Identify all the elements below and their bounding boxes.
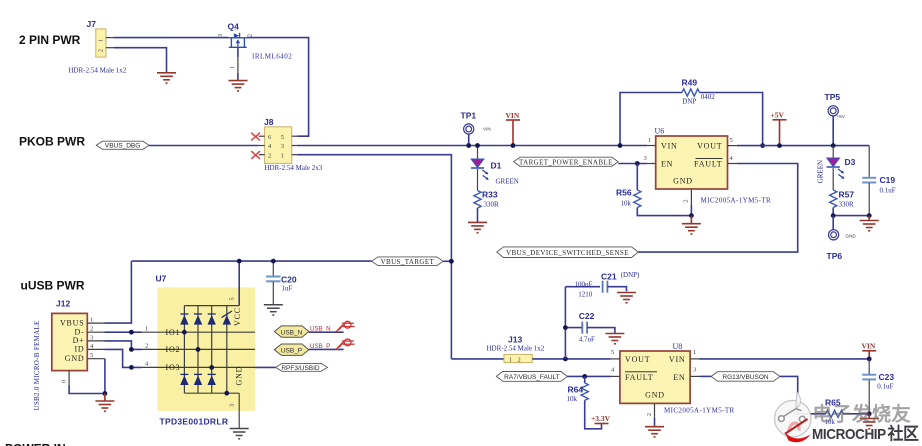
wire Q4 drain to J8 pin5 bbox=[247, 38, 309, 137]
wire U6 FAULT to sense label bbox=[638, 164, 798, 253]
svg-text:330R: 330R bbox=[484, 200, 500, 208]
IC U6 MIC2005A-1YM5-TR bbox=[644, 126, 772, 215]
svg-text:2: 2 bbox=[646, 413, 653, 416]
svg-text:GND: GND bbox=[673, 177, 693, 186]
svg-text:ID: ID bbox=[74, 345, 84, 354]
junction D1/VIN rail bbox=[475, 143, 480, 148]
wire EN label to U8 pin3 bbox=[700, 375, 712, 377]
svg-text:2: 2 bbox=[518, 356, 521, 363]
wire C21/C22 column bbox=[564, 287, 566, 359]
resistor R56 10k bbox=[616, 164, 691, 216]
power symbol VIN (left) bbox=[506, 111, 521, 146]
svg-text:10k: 10k bbox=[621, 200, 632, 208]
svg-text:GREEN: GREEN bbox=[496, 178, 519, 186]
svg-text:VIN: VIN bbox=[483, 127, 491, 132]
IC U8 MIC2005A-1YM5-TR bbox=[611, 342, 735, 427]
wire J13 to U8 VOUT bbox=[532, 358, 610, 360]
watermark logo circle bbox=[775, 392, 811, 442]
svg-text:3: 3 bbox=[229, 404, 236, 407]
svg-text:D1: D1 bbox=[491, 160, 502, 170]
resistor R65 10k bbox=[825, 397, 870, 425]
svg-text:2: 2 bbox=[90, 326, 93, 333]
junction C19 bottom bbox=[867, 213, 872, 218]
no-connect X on J8 pin6 bbox=[251, 133, 260, 141]
svg-text:GND: GND bbox=[846, 234, 857, 239]
top ESD diode column3 bbox=[208, 314, 216, 325]
wire U6 VOUT rail bbox=[737, 145, 869, 147]
svg-text:100uF: 100uF bbox=[575, 280, 593, 288]
test point TP1 bbox=[461, 111, 491, 146]
ground at U7 bbox=[230, 429, 249, 439]
svg-text:EN: EN bbox=[661, 160, 673, 169]
IC U7 TPD3E001DRLR bbox=[142, 274, 256, 427]
junction R49 left/VIN rail bbox=[618, 143, 623, 148]
connector J8 bbox=[259, 117, 323, 172]
svg-text:1: 1 bbox=[145, 325, 148, 332]
wire enable label to U6 pin3 bbox=[618, 163, 647, 165]
capacitor C21 100uF 1210 (DNP) bbox=[565, 271, 640, 299]
svg-text:J8: J8 bbox=[264, 117, 274, 127]
wire VBUS rail to VBUS_TARGET bbox=[131, 260, 371, 262]
svg-text:4.7uF: 4.7uF bbox=[579, 336, 595, 344]
capacitor C23 0.1uF bbox=[862, 359, 894, 414]
svg-text:VIN: VIN bbox=[506, 111, 520, 120]
wire main VIN rail J8 pin3 to U6 pin1 bbox=[298, 145, 648, 147]
connector J13 bbox=[487, 335, 545, 364]
svg-text:U7: U7 bbox=[156, 274, 167, 284]
svg-text:IO3: IO3 bbox=[166, 363, 181, 372]
svg-text:0.1uF: 0.1uF bbox=[877, 382, 893, 390]
svg-text:3: 3 bbox=[217, 34, 224, 37]
svg-text:3: 3 bbox=[281, 143, 284, 150]
power symbol +3.3V bbox=[591, 414, 611, 424]
wire J12 ID to IO3 bbox=[105, 349, 142, 367]
test point TP6 bbox=[827, 216, 857, 261]
junction VIN/U8 rail bbox=[867, 357, 872, 362]
wire J12 shield to ground bbox=[69, 385, 105, 394]
svg-text:0: 0 bbox=[61, 380, 68, 383]
svg-text:R49: R49 bbox=[682, 77, 698, 87]
svg-text:IRLML6402: IRLML6402 bbox=[252, 52, 292, 60]
capacitor C20 1uF bbox=[266, 261, 297, 304]
port label USB_N bbox=[274, 321, 354, 337]
svg-text:3: 3 bbox=[644, 155, 647, 162]
svg-text:J7: J7 bbox=[87, 19, 97, 29]
svg-text:VOUT: VOUT bbox=[625, 355, 650, 364]
svg-text:1: 1 bbox=[229, 66, 236, 69]
wire J7 pin2 to ground bbox=[114, 48, 167, 73]
junction C23 bottom/R65 bbox=[867, 411, 872, 416]
svg-text:电子发烧友: 电子发烧友 bbox=[813, 403, 912, 426]
bottom ESD diode column1 bbox=[180, 374, 188, 385]
svg-text:D3: D3 bbox=[845, 157, 856, 167]
svg-text:VIN: VIN bbox=[661, 142, 678, 151]
svg-text:USB2.0 MICRO-B FEMALE: USB2.0 MICRO-B FEMALE bbox=[33, 320, 41, 410]
svg-text:HDR-2.54 Male 1x2: HDR-2.54 Male 1x2 bbox=[487, 345, 545, 353]
svg-text:2: 2 bbox=[247, 34, 254, 37]
wire J12 D+ to IO2 bbox=[105, 341, 142, 350]
svg-text:+5V: +5V bbox=[837, 114, 846, 119]
svg-text:uUSB PWR: uUSB PWR bbox=[21, 279, 85, 293]
svg-text:J13: J13 bbox=[508, 335, 522, 345]
svg-text:TP1: TP1 bbox=[461, 111, 477, 121]
svg-text:USB_N: USB_N bbox=[281, 329, 303, 336]
ground at U6 pin2 bbox=[682, 216, 701, 234]
power symbol +5V bbox=[771, 111, 787, 146]
wire J13 rail bbox=[451, 358, 504, 360]
wire fault label to U8 pin4 bbox=[567, 375, 610, 377]
ground at Q4 gate bbox=[229, 81, 248, 91]
wire R57 bottom to C19 bottom bbox=[833, 215, 869, 217]
svg-text:GND: GND bbox=[65, 354, 85, 363]
svg-text:D-: D- bbox=[74, 328, 84, 337]
svg-text:Q4: Q4 bbox=[228, 22, 240, 32]
watermark MICROCHIP 社区 text bbox=[812, 424, 919, 444]
svg-text:GND: GND bbox=[645, 391, 665, 400]
svg-text:J12: J12 bbox=[56, 298, 70, 308]
connector J7 bbox=[69, 19, 127, 75]
net label RA7/VBUS_FAULT bbox=[496, 372, 567, 382]
svg-text:USB_N: USB_N bbox=[310, 325, 331, 332]
wire J12 GND down bbox=[104, 359, 106, 394]
junction R57/TP6 bbox=[831, 213, 836, 218]
capacitor C19 0.1uF bbox=[862, 146, 896, 216]
junction TP1/VIN rail bbox=[466, 143, 471, 148]
net label TARGET_POWER_ENABLE bbox=[514, 157, 619, 166]
net label VBUS_DEVICE_SWITCHED_SENSE bbox=[497, 247, 638, 258]
resistor R49 DNP 0402 bbox=[620, 77, 763, 145]
svg-text:USB_P: USB_P bbox=[310, 343, 330, 350]
svg-text:RPF3/USBID: RPF3/USBID bbox=[281, 365, 320, 372]
svg-text:PKOB PWR: PKOB PWR bbox=[19, 135, 85, 149]
svg-text:GND: GND bbox=[235, 366, 244, 386]
svg-text:1: 1 bbox=[648, 137, 651, 144]
gate pin down bbox=[237, 47, 239, 57]
svg-text:+3.3V: +3.3V bbox=[591, 414, 611, 423]
junction U7 VCC/VBUS rail bbox=[237, 259, 242, 264]
svg-text:GREEN: GREEN bbox=[817, 160, 825, 183]
resistor R64 10k bbox=[567, 376, 602, 428]
svg-text:VBUS_TARGET: VBUS_TARGET bbox=[381, 258, 435, 266]
svg-text:VOUT: VOUT bbox=[697, 142, 722, 151]
junction FAULT/R64 bbox=[582, 374, 587, 379]
ground at C19 bbox=[860, 216, 879, 231]
svg-text:DNP: DNP bbox=[682, 97, 696, 105]
junction J13 rail / C22 column bbox=[563, 357, 568, 362]
svg-text:VBUS: VBUS bbox=[60, 318, 85, 327]
junction U6 GND/R56 bbox=[689, 213, 694, 218]
svg-text:5: 5 bbox=[229, 297, 236, 300]
junction J12 ground node bbox=[103, 391, 108, 396]
junction TP5/VOUT rail bbox=[831, 143, 836, 148]
svg-text:0402: 0402 bbox=[701, 93, 716, 101]
svg-text:5: 5 bbox=[281, 134, 284, 141]
svg-text:U8: U8 bbox=[673, 342, 683, 351]
net label VBUS_TARGET bbox=[372, 257, 444, 266]
LED D1 bbox=[471, 146, 519, 186]
svg-text:FAULT: FAULT bbox=[694, 160, 722, 169]
svg-text:1uF: 1uF bbox=[282, 285, 293, 293]
ground at R33 bbox=[468, 222, 487, 232]
bottom ESD diode column3 bbox=[208, 374, 216, 385]
junction D+/IO2 bbox=[129, 347, 134, 352]
svg-text:330R: 330R bbox=[839, 201, 855, 209]
svg-text:1: 1 bbox=[90, 317, 93, 324]
svg-text:POWER IN: POWER IN bbox=[5, 441, 66, 446]
wire J7 pin1 to Q4 bbox=[114, 37, 229, 39]
top ESD diode column2 bbox=[194, 314, 202, 325]
svg-text:HDR-2.54 Male 1x2: HDR-2.54 Male 1x2 bbox=[69, 67, 127, 75]
svg-text:U6: U6 bbox=[655, 126, 665, 135]
wire U8 VIN rail bbox=[700, 358, 870, 360]
wire EN to R65 bbox=[780, 376, 826, 413]
svg-text:5: 5 bbox=[611, 349, 614, 356]
resistor R57 330R bbox=[830, 168, 855, 216]
net label RG13/VBUSON bbox=[711, 372, 780, 382]
svg-text:C20: C20 bbox=[281, 274, 297, 284]
transistor Q4 IRLML6402 bbox=[217, 22, 292, 81]
svg-text:+5V: +5V bbox=[771, 111, 785, 120]
junction C20/VBUS rail bbox=[271, 259, 276, 264]
svg-text:VBUS_DBG: VBUS_DBG bbox=[105, 143, 140, 150]
no-connect X on J8 pin2 bbox=[251, 151, 260, 159]
wire U7 GND pin down bbox=[238, 393, 240, 428]
junction C22/column bbox=[563, 325, 568, 330]
resistor R33 330R bbox=[474, 169, 499, 222]
bottom ESD diode column2 bbox=[194, 374, 202, 385]
svg-text:VBUS_DEVICE_SWITCHED_SENSE: VBUS_DEVICE_SWITCHED_SENSE bbox=[506, 249, 629, 257]
junction VBUS_TARGET/column bbox=[449, 259, 454, 264]
wire J12 VBUS up to VBUS rail bbox=[105, 261, 132, 323]
wire VBUS_DBG to J8 pin4 bbox=[149, 145, 259, 147]
svg-text:C19: C19 bbox=[880, 175, 896, 185]
junction IO1/column1 bbox=[182, 330, 187, 335]
junction R49 right/VOUT rail bbox=[760, 143, 765, 148]
body diode arrow bbox=[234, 33, 239, 38]
channel arrow bbox=[237, 40, 239, 47]
wire J8 pin1 down to VBUS_TARGET column bbox=[298, 155, 452, 359]
junction bottom rail/column4 bbox=[224, 391, 229, 396]
svg-text:C21: C21 bbox=[601, 272, 617, 282]
ground at C22 bbox=[605, 334, 624, 344]
LED D3 bbox=[817, 146, 856, 184]
svg-text:TARGET_POWER_ENABLE: TARGET_POWER_ENABLE bbox=[519, 158, 613, 166]
zener diode column4 bbox=[222, 311, 232, 325]
svg-text:2 PIN PWR: 2 PIN PWR bbox=[19, 33, 81, 47]
ground at C23 bbox=[860, 414, 879, 429]
svg-text:HDR-2.54 Male 2x3: HDR-2.54 Male 2x3 bbox=[265, 164, 323, 172]
ground at C21 bbox=[617, 293, 636, 303]
svg-text:EN: EN bbox=[673, 373, 685, 382]
connector J12 USB2.0 MICRO-B FEMALE bbox=[33, 298, 105, 410]
svg-text:3: 3 bbox=[693, 367, 696, 374]
junction IO2/column2 bbox=[196, 347, 201, 352]
junction +5V/VOUT rail bbox=[777, 143, 782, 148]
svg-text:2: 2 bbox=[683, 199, 690, 202]
svg-text:VIN: VIN bbox=[669, 355, 686, 364]
svg-text:C22: C22 bbox=[579, 311, 595, 321]
svg-text:USB_P: USB_P bbox=[281, 348, 302, 355]
svg-text:MIC2005A-1YM5-TR: MIC2005A-1YM5-TR bbox=[701, 197, 772, 205]
top ESD diode column1 bbox=[180, 314, 188, 325]
wire J12 D- to IO1 bbox=[105, 331, 142, 333]
net label VBUS_DBG bbox=[96, 141, 149, 149]
junction ID/IO3 bbox=[129, 365, 134, 370]
svg-text:R64: R64 bbox=[568, 384, 584, 394]
svg-text:RA7/VBUS_FAULT: RA7/VBUS_FAULT bbox=[504, 374, 560, 381]
svg-text:1: 1 bbox=[693, 349, 696, 356]
junction IO3/column3 bbox=[209, 365, 214, 370]
ground at J12 bbox=[95, 394, 114, 412]
junction VIN symbol/rail bbox=[511, 143, 516, 148]
svg-text:MICROCHIP社区: MICROCHIP社区 bbox=[812, 424, 919, 444]
svg-text:TP6: TP6 bbox=[827, 251, 843, 261]
svg-text:1: 1 bbox=[281, 152, 284, 159]
svg-text:IO1: IO1 bbox=[166, 328, 181, 337]
power symbol VIN (right) bbox=[862, 341, 877, 359]
svg-text:2: 2 bbox=[98, 49, 105, 52]
svg-text:R56: R56 bbox=[616, 187, 632, 197]
svg-text:FAULT: FAULT bbox=[625, 373, 653, 382]
net label RPF3/USBID bbox=[255, 363, 328, 371]
ground at C20 bbox=[264, 305, 283, 315]
svg-text:5: 5 bbox=[90, 352, 93, 359]
capacitor C22 4.7uF bbox=[565, 311, 615, 344]
ground at U8 pin2 bbox=[645, 427, 664, 437]
wire U7 VCC up to VBUS rail bbox=[238, 261, 240, 306]
svg-text:RG13/VBUSON: RG13/VBUSON bbox=[722, 374, 769, 381]
rails and columns bbox=[184, 305, 239, 307]
svg-text:2: 2 bbox=[268, 152, 271, 159]
svg-text:R33: R33 bbox=[482, 190, 498, 200]
svg-text:R57: R57 bbox=[839, 190, 855, 200]
svg-text:VCC: VCC bbox=[233, 307, 242, 326]
svg-text:VIN: VIN bbox=[862, 341, 876, 350]
svg-text:0.1uF: 0.1uF bbox=[880, 186, 896, 194]
svg-text:1210: 1210 bbox=[578, 291, 593, 299]
wire VBUS_TARGET to vertical column bbox=[443, 260, 451, 262]
svg-text:1: 1 bbox=[98, 39, 105, 42]
svg-text:C23: C23 bbox=[879, 372, 895, 382]
svg-text:TPD3E001DRLR: TPD3E001DRLR bbox=[160, 417, 229, 427]
svg-text:MIC2005A-1YM5-TR: MIC2005A-1YM5-TR bbox=[664, 406, 735, 414]
IO lines inside bbox=[142, 331, 256, 333]
port label USB_P bbox=[274, 339, 354, 355]
svg-text:IO2: IO2 bbox=[166, 345, 181, 354]
svg-text:(DNP): (DNP) bbox=[621, 271, 640, 279]
svg-text:5: 5 bbox=[730, 137, 733, 144]
svg-text:10k: 10k bbox=[567, 395, 578, 403]
svg-text:3: 3 bbox=[90, 334, 93, 341]
svg-text:2: 2 bbox=[145, 343, 148, 350]
svg-text:1: 1 bbox=[509, 356, 512, 363]
junction D-/IO1 bbox=[129, 330, 134, 335]
junction EN/R56 bbox=[635, 161, 640, 166]
svg-text:TP5: TP5 bbox=[825, 92, 841, 102]
ground at J7 pin2 bbox=[157, 73, 176, 83]
test point TP5 bbox=[825, 92, 846, 146]
